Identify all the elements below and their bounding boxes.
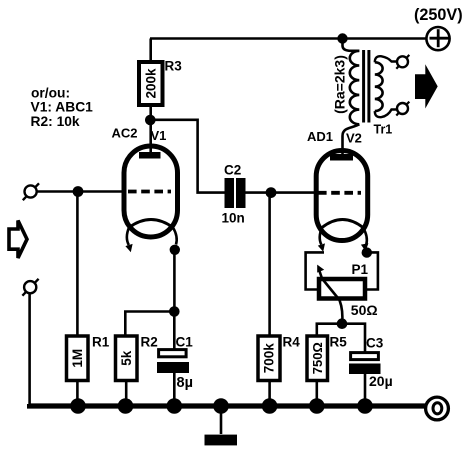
node: bus dot R1 <box>70 398 86 414</box>
output arrow (solid, pointing right) <box>415 64 438 108</box>
wire: R3 bottom to V1 anode <box>149 105 152 152</box>
resistor R4 <box>258 336 280 381</box>
svg-text:R2: R2 <box>141 335 158 350</box>
svg-text:R1: R1 <box>92 335 110 350</box>
V1 cathode dome <box>129 220 173 228</box>
wire: R5 bottom <box>315 381 318 407</box>
wire: C3 bottom <box>364 374 367 406</box>
node: bus dot R5 <box>309 398 325 414</box>
ground symbol <box>205 406 238 445</box>
V2 envelope <box>316 151 368 241</box>
V2 anode plate <box>330 154 353 161</box>
V2 heater lead with arrow <box>320 228 322 245</box>
svg-text:C1: C1 <box>176 335 194 350</box>
wire: lower input terminal to ground bus <box>28 293 31 405</box>
wire: P1 loop right <box>367 252 378 289</box>
wire: Tr1 secondary top lead <box>375 56 397 62</box>
transformer Tr1 <box>343 39 410 155</box>
Tr1 secondary winding <box>375 62 383 111</box>
tube V1 (triode AC2) <box>124 146 180 255</box>
wire: input to V1 grid <box>37 190 125 193</box>
terminal: Tr1 secondary upper <box>396 55 409 69</box>
svg-text:(250V): (250V) <box>414 6 463 24</box>
Tr1 primary winding <box>350 51 360 125</box>
svg-text:750Ω: 750Ω <box>310 342 325 374</box>
node: V2 cathode dot <box>362 247 372 257</box>
node: bus dot R4 <box>262 398 278 414</box>
svg-text:V2: V2 <box>346 131 362 146</box>
terminal: input upper (circle with slash) <box>23 183 39 200</box>
svg-text:R2: 10k: R2: 10k <box>31 114 80 129</box>
wire: R1 bottom <box>76 381 79 407</box>
node: wiper junction dot <box>337 318 348 329</box>
svg-text:V1: ABC1: V1: ABC1 <box>31 100 94 115</box>
terminal: +250V supply (circle with plus) <box>426 27 449 50</box>
node: junction cathode / R2 / C1 <box>169 306 180 317</box>
node: junction C2 / R4 <box>266 187 277 198</box>
wire: P1 wiper to junction <box>340 300 343 324</box>
V2 cathode lead with arrow <box>363 228 367 245</box>
svg-text:8µ: 8µ <box>177 375 193 391</box>
svg-text:P1: P1 <box>352 262 369 277</box>
wire: C2 right plate to V2 grid <box>246 191 317 194</box>
svg-text:C2: C2 <box>224 163 241 178</box>
terminal: output (circle with inner circle) <box>426 397 449 420</box>
resistor R5 <box>307 336 328 381</box>
V2 cathode dome <box>322 220 363 228</box>
svg-text:AC2: AC2 <box>112 125 138 140</box>
resistor R1 <box>67 336 89 381</box>
wire: R4 top drop <box>268 193 271 336</box>
V1 envelope <box>124 146 178 237</box>
Tr1 core <box>362 50 365 123</box>
svg-text:AD1: AD1 <box>307 129 333 144</box>
node: bus dot C3 <box>357 398 373 414</box>
V1 heater lead with arrow <box>127 228 129 246</box>
svg-text:1M: 1M <box>70 349 85 368</box>
wire: branch to R2 <box>125 312 174 337</box>
V1 anode plate <box>139 152 161 159</box>
svg-text:V1: V1 <box>151 128 167 143</box>
wire: feedback from R3 junction to C2 left plate <box>150 120 224 193</box>
ground bus (bottom rail) <box>30 404 427 406</box>
svg-text:Tr1: Tr1 <box>374 123 393 137</box>
node: V1 cathode dot <box>170 245 180 255</box>
capacitor C2 <box>225 178 246 208</box>
node: bus dot ground <box>213 398 229 414</box>
wire: P1 loop left <box>306 252 324 289</box>
svg-text:R4: R4 <box>283 335 301 350</box>
wire: R1 top drop <box>76 192 79 337</box>
wire: C1 bottom <box>173 373 176 406</box>
potentiometer P1 <box>317 265 365 300</box>
node: junction supply rail / Tr1 primary <box>337 33 347 43</box>
capacitor C1 (electrolytic) <box>157 350 189 373</box>
input arrow (hollow, pointing right) <box>9 221 27 259</box>
wire: R3 top lead <box>149 39 152 63</box>
svg-text:50Ω: 50Ω <box>351 302 378 318</box>
wire: cathode rail to R5 and C3 <box>317 324 365 352</box>
tube V2 (triode AD1) <box>316 151 372 258</box>
wire: R2 bottom <box>125 381 128 407</box>
resistor R3 <box>139 62 163 105</box>
wire: V1 cathode drop <box>173 250 176 312</box>
wire: Tr1 secondary bottom lead <box>375 110 397 118</box>
V1 cathode lead <box>173 228 177 245</box>
resistor R2 <box>116 336 138 381</box>
capacitor C3 (electrolytic) <box>349 353 381 374</box>
wire: Tr1 primary top lead <box>343 39 360 51</box>
svg-text:5k: 5k <box>119 350 134 366</box>
node: bus dot R2 <box>118 398 134 414</box>
wire: Tr1 primary bottom lead to V2 anode <box>343 124 360 154</box>
svg-text:10n: 10n <box>222 211 245 226</box>
terminal: input lower (circle with slash) <box>22 279 38 296</box>
V1 grid (dashed) <box>128 190 171 194</box>
wire: +250V top rail <box>150 37 427 40</box>
svg-text:700k: 700k <box>262 343 277 374</box>
svg-text:20µ: 20µ <box>369 373 393 389</box>
terminal: Tr1 secondary lower <box>396 102 409 116</box>
wire: R4 bottom <box>268 381 271 407</box>
svg-text:R3: R3 <box>165 58 183 73</box>
node: bus dot C1 <box>167 398 183 414</box>
svg-text:200k: 200k <box>143 68 158 99</box>
svg-text:(Ra=2k3): (Ra=2k3) <box>331 55 347 114</box>
svg-text:or/ou:: or/ou: <box>31 86 70 101</box>
wire: C1 top drop <box>173 312 176 350</box>
svg-text:C3: C3 <box>366 336 384 351</box>
svg-text:R5: R5 <box>330 335 348 350</box>
node: junction input / R1 <box>73 186 84 197</box>
V2 grid (dashed) <box>318 191 361 195</box>
node: junction R3 / feedback wire <box>145 115 156 126</box>
